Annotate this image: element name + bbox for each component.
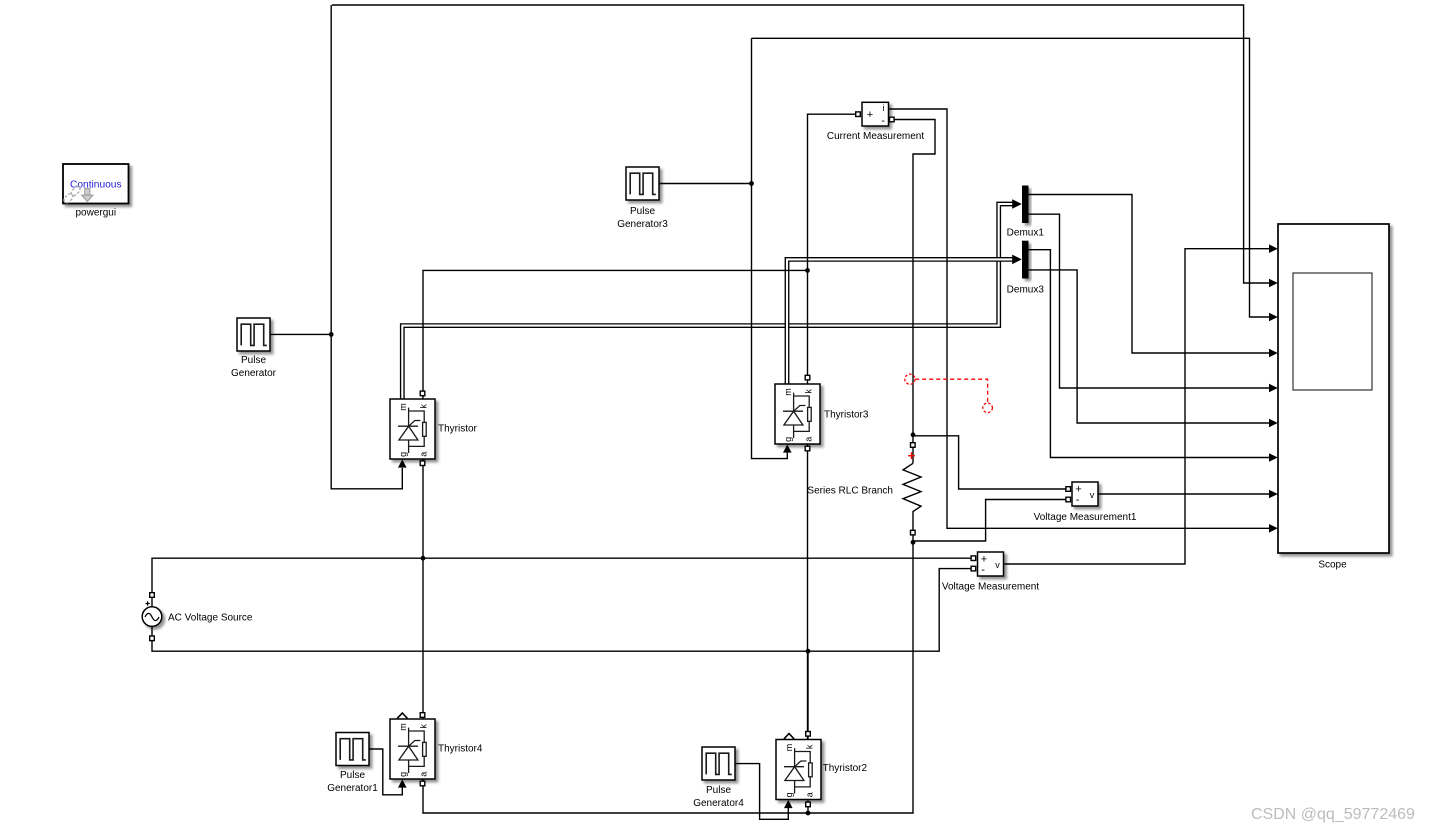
port Thyristor4.k <box>420 713 425 718</box>
svg-text:m: m <box>398 403 408 411</box>
chevron Thyristor2.m unconnected <box>784 734 794 739</box>
svg-text:k: k <box>805 744 815 749</box>
port Series RLC Branch bottom <box>911 530 916 535</box>
wire Pulse Generator4 out to Thyristor2 gate <box>735 764 788 820</box>
AC Voltage Source <box>142 601 162 626</box>
svg-text:-: - <box>881 115 885 127</box>
node AC- / Thyristor3.a junction <box>806 649 811 654</box>
block Thyristor2 <box>776 740 821 800</box>
svg-text:Pulse: Pulse <box>241 355 266 366</box>
block Pulse Generator4 <box>702 747 735 780</box>
wire Current Measurement - to Series RLC Branch top <box>894 120 935 464</box>
wire Thyristor.a to Thyristor4.k <box>422 459 424 719</box>
block Voltage Measurement <box>978 552 1004 576</box>
red circle 2 <box>983 403 993 413</box>
wire Pulse Generator3 out to junction and Thyristor3 gate <box>659 38 787 458</box>
RED <box>905 374 993 459</box>
svg-text:Thyristor4: Thyristor4 <box>438 744 483 755</box>
arrow Thyristor4 gate input <box>398 779 407 787</box>
svg-text:Pulse: Pulse <box>630 206 655 217</box>
arrow Scope input 6 <box>1269 419 1278 428</box>
wire Thyristor2.a to negative rail <box>807 800 809 814</box>
svg-text:Demux1: Demux1 <box>1007 228 1045 239</box>
wire AC+ top rail to Voltage Measurement + <box>152 558 971 607</box>
svg-text:g: g <box>784 792 794 797</box>
svg-text:Scope: Scope <box>1318 560 1347 571</box>
port Thyristor4.a <box>420 781 425 786</box>
bus arrowhead into Demux3 <box>1012 255 1022 265</box>
port Voltage Measurement1 - <box>1066 497 1071 502</box>
block Thyristor <box>390 399 435 459</box>
node PG junction <box>329 332 334 337</box>
wire Pulse Generator3 signal to Scope input 3 <box>752 38 1270 317</box>
arrow Scope input 1 <box>1269 244 1278 253</box>
svg-text:g: g <box>398 772 408 777</box>
node Thyristor2.a junction <box>806 811 811 816</box>
ARROWS <box>398 244 1278 808</box>
svg-text:m: m <box>398 723 408 731</box>
svg-text:-: - <box>981 564 985 576</box>
block Pulse Generator1 <box>336 733 369 766</box>
svg-text:Demux3: Demux3 <box>1007 285 1045 296</box>
svg-text:Continuous: Continuous <box>70 180 122 191</box>
svg-text:Thyristor2: Thyristor2 <box>823 763 868 774</box>
bus signal Thyristor3.m to Demux3 <box>787 259 1013 384</box>
red dashed annotation wire <box>915 379 987 402</box>
svg-text:a: a <box>419 772 429 777</box>
wire Pulse Generator signal to Scope input 2 (top) <box>332 5 1269 283</box>
port Current Measurement - <box>890 117 895 122</box>
svg-text:Voltage Measurement1: Voltage Measurement1 <box>1034 512 1137 523</box>
svg-text:Current Measurement: Current Measurement <box>827 131 924 142</box>
wire Thyristor2.k down from bottom rail junction <box>807 651 809 739</box>
svg-text:v: v <box>995 560 1000 570</box>
wire Pulse Generator1 out to Thyristor4 gate <box>369 749 402 795</box>
wire Voltage Measurement out to Scope input 1 <box>1004 249 1270 564</box>
wire load top node to Voltage Measurement1 + <box>913 436 1066 489</box>
wire Demux3 out1 to Scope input 7 <box>1029 250 1270 458</box>
block Scope <box>1278 224 1389 553</box>
wire Current Measurement i out to Scope input 9 <box>889 109 1270 528</box>
svg-text:m: m <box>784 744 794 752</box>
node load bottom junction <box>911 540 916 545</box>
node load top junction <box>911 432 916 437</box>
svg-text:Generator1: Generator1 <box>327 783 378 794</box>
wire Voltage Measurement1 out to Scope input 8 <box>1098 493 1269 495</box>
port Thyristor2.k <box>806 732 811 737</box>
block Demux1 (bar) <box>1022 186 1029 224</box>
block Pulse Generator <box>237 318 270 351</box>
block Demux3 (bar) <box>1022 241 1029 279</box>
block Current Measurement <box>862 102 889 127</box>
port Thyristor3.k <box>805 375 810 380</box>
svg-text:g: g <box>783 437 793 442</box>
PORTS <box>150 112 1071 807</box>
arrow Scope input 7 <box>1269 453 1278 462</box>
port Voltage Measurement - <box>971 566 976 571</box>
block Thyristor3 <box>775 384 820 444</box>
arrow Scope input 4 <box>1269 349 1278 358</box>
svg-text:Generator3: Generator3 <box>617 219 668 230</box>
wire Pulse Generator out to junction and Thyristor gate <box>270 5 402 489</box>
svg-text:Series RLC Branch: Series RLC Branch <box>807 485 893 496</box>
wire Demux3 out2 to Scope input 6 <box>1029 270 1270 423</box>
node cathode rail junction <box>805 268 810 273</box>
chevron Thyristor4.m unconnected <box>397 713 407 718</box>
svg-text:AC Voltage Source: AC Voltage Source <box>168 612 253 623</box>
wire Demux1 out2 to Scope input 5 <box>1029 214 1270 388</box>
arrow Thyristor3 gate input <box>783 444 792 452</box>
wire Thyristor3.a to Thyristor2.k <box>807 444 809 739</box>
port Thyristor2.a <box>806 802 811 807</box>
port Voltage Measurement + <box>971 556 976 561</box>
svg-text:g: g <box>398 452 408 457</box>
port Thyristor.a <box>420 461 425 466</box>
svg-text:k: k <box>419 724 429 729</box>
BUSES <box>402 199 1022 399</box>
arrow Scope input 3 <box>1269 313 1278 322</box>
red + polarity of Series RLC Branch <box>908 452 915 459</box>
svg-text:Pulse: Pulse <box>340 770 365 781</box>
port Thyristor3.a <box>805 446 810 451</box>
svg-text:Thyristor: Thyristor <box>438 424 478 435</box>
block Voltage Measurement1 <box>1072 482 1098 506</box>
arrow Thyristor2 gate input <box>784 800 793 808</box>
svg-text:i: i <box>883 103 885 113</box>
block Pulse Generator3 <box>626 167 659 200</box>
svg-text:v: v <box>1090 490 1095 500</box>
svg-text:k: k <box>419 404 429 409</box>
red circle 1 <box>905 374 915 384</box>
port AC+ <box>150 593 155 598</box>
svg-text:a: a <box>804 437 814 442</box>
bus arrowhead into Demux1 <box>1012 199 1022 209</box>
wire AC- bottom rail to Voltage Measurement - <box>152 569 971 652</box>
arrow Scope input 9 <box>1269 524 1278 533</box>
svg-text:+: + <box>867 109 873 121</box>
block Thyristor4 <box>390 719 435 779</box>
wire load bottom to negative bridge rail <box>423 541 913 813</box>
port Voltage Measurement1 + <box>1066 487 1071 492</box>
svg-text:m: m <box>783 388 793 396</box>
wire Thyristor.k to cathode rail <box>423 270 808 399</box>
node AC+ / Thyristor.a junction <box>421 556 426 561</box>
arrow Thyristor gate input <box>398 459 407 467</box>
node PG3 junction <box>749 181 754 186</box>
wire load bottom node to Voltage Measurement1 - <box>913 500 1066 542</box>
svg-text:k: k <box>804 389 814 394</box>
arrow Scope input 8 <box>1269 490 1278 499</box>
port Series RLC Branch top <box>911 443 916 448</box>
port Thyristor.k <box>420 391 425 396</box>
resistor Series RLC Branch zigzag <box>903 463 921 541</box>
powergui block <box>63 164 129 204</box>
svg-text:Thyristor3: Thyristor3 <box>824 410 869 421</box>
svg-text:CSDN @qq_59772469: CSDN @qq_59772469 <box>1251 806 1415 823</box>
svg-text:-: - <box>1076 494 1080 506</box>
wire cathode rail to Current Measurement + <box>808 114 856 384</box>
arrow Scope input 5 <box>1269 384 1278 393</box>
svg-text:powergui: powergui <box>76 207 117 218</box>
svg-text:a: a <box>805 792 815 797</box>
svg-text:Generator4: Generator4 <box>693 798 744 809</box>
bus signal Thyristor.m to Demux1 <box>402 204 1013 399</box>
arrow Scope input 2 <box>1269 279 1278 288</box>
svg-text:Pulse: Pulse <box>706 785 731 796</box>
port Current Measurement + <box>856 112 861 117</box>
svg-text:Voltage Measurement: Voltage Measurement <box>942 582 1040 593</box>
wire Demux1 out1 to Scope input 4 <box>1029 195 1270 354</box>
port AC- <box>150 636 155 641</box>
svg-text:Generator: Generator <box>231 368 277 379</box>
svg-text:a: a <box>419 452 429 457</box>
